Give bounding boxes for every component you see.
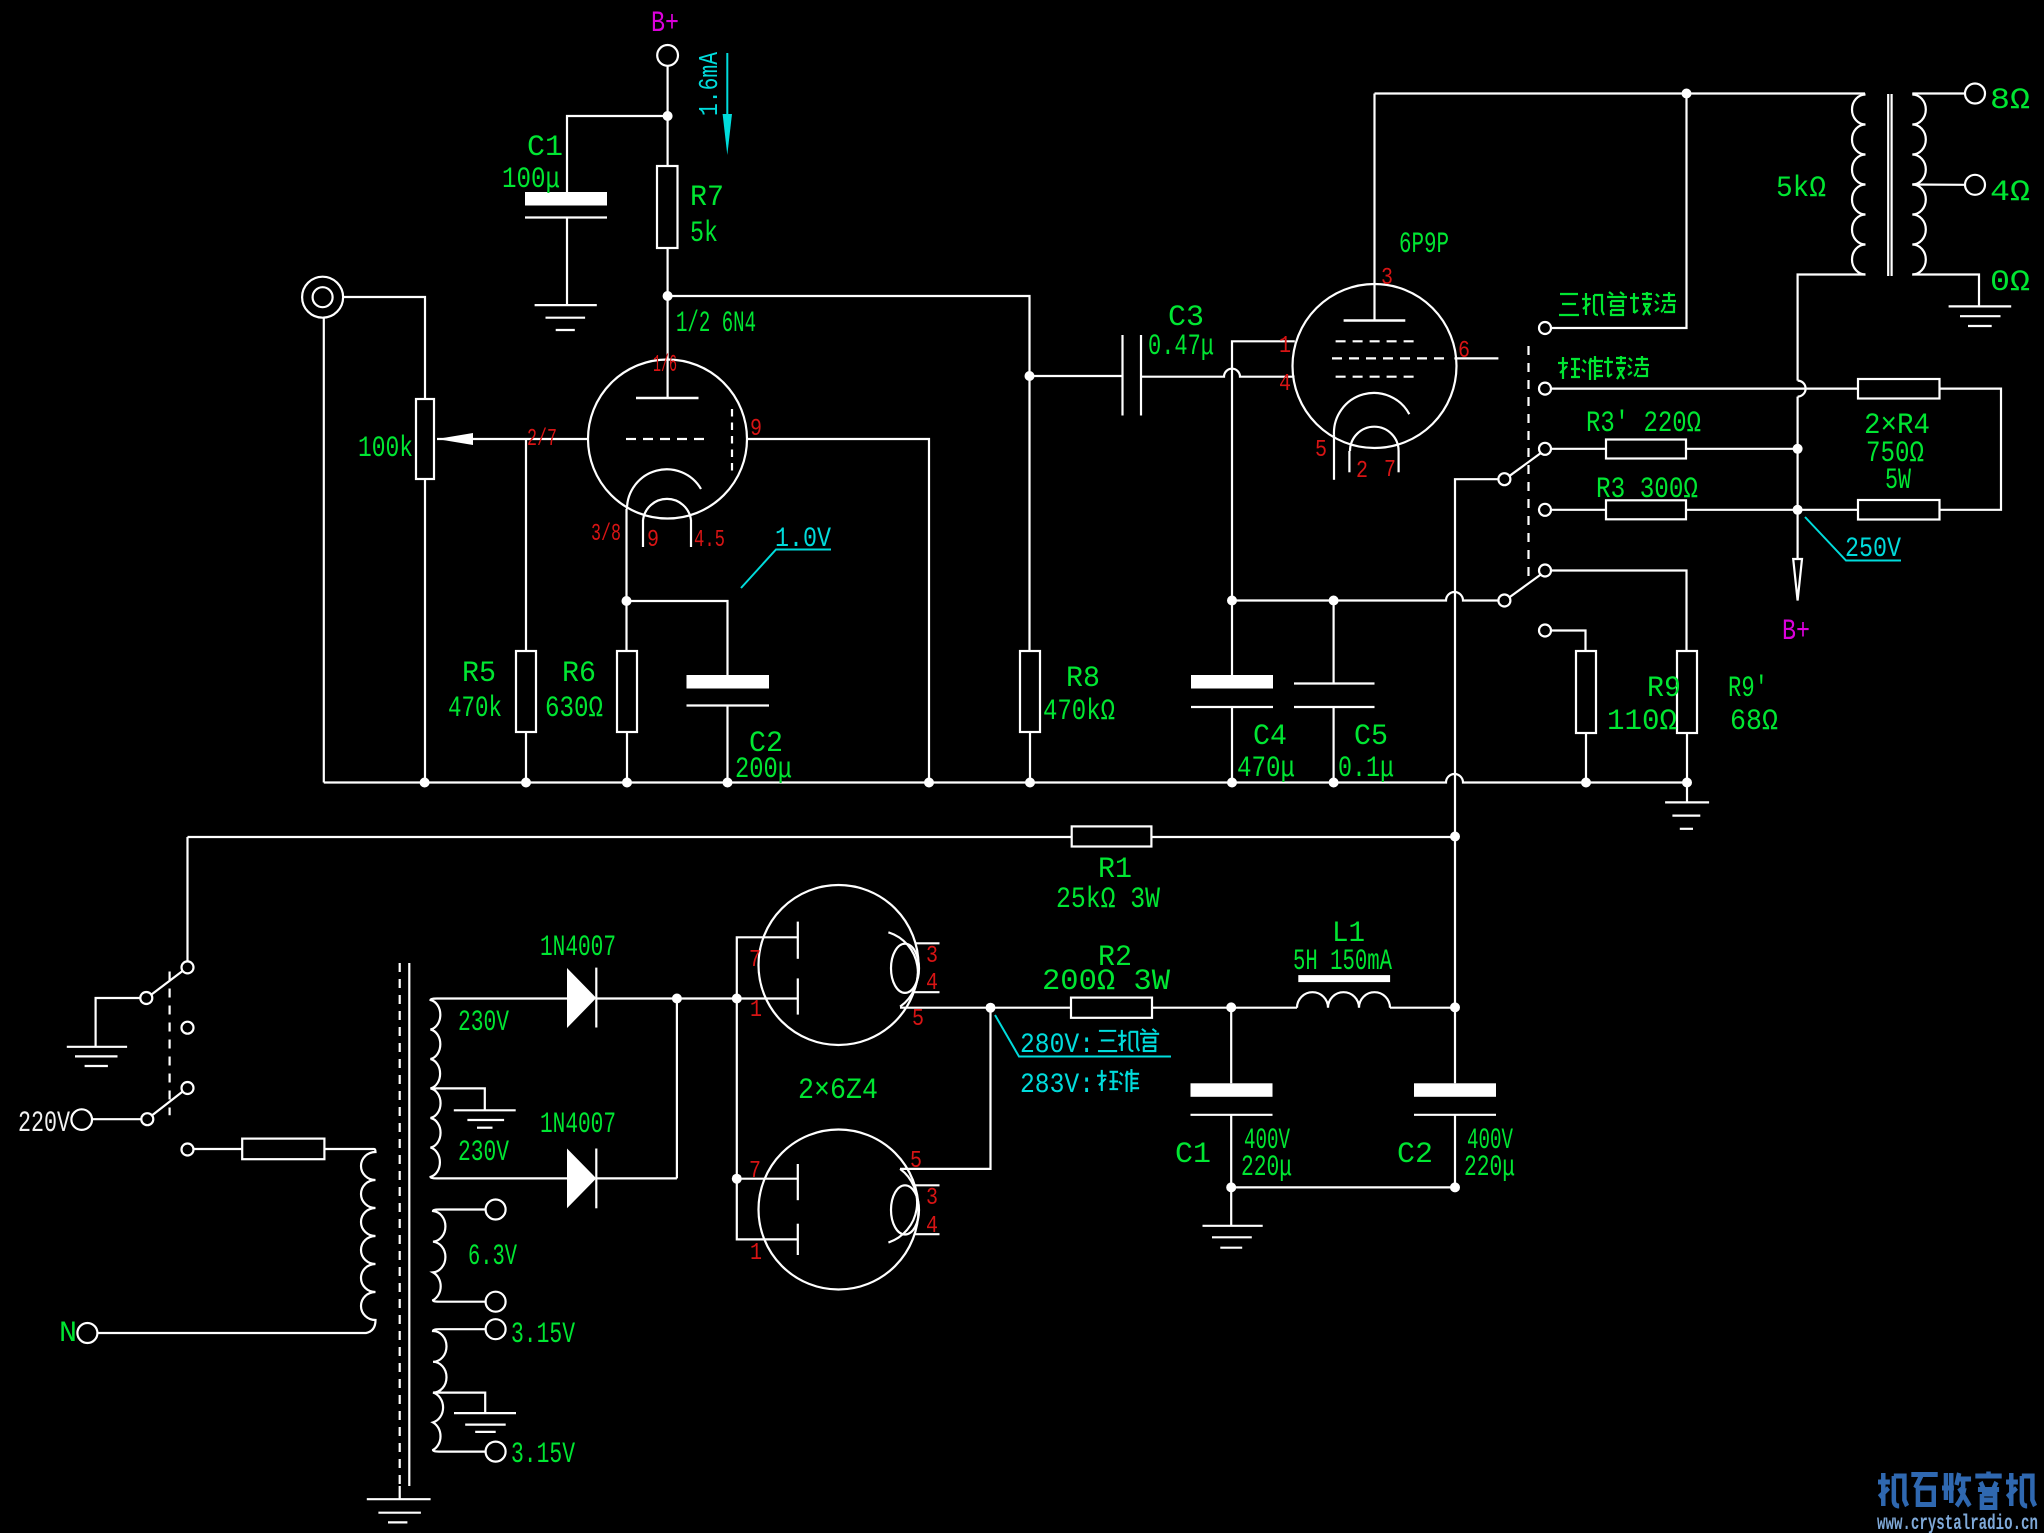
switch S1b lower contact to fuse — [182, 1144, 194, 1156]
node plate feed dot V2 — [732, 1174, 742, 1184]
wire cathode lead down — [625, 509, 627, 651]
switch S1b blade — [153, 1092, 183, 1115]
svg-text:B+: B+ — [651, 7, 679, 41]
svg-text:1N4007: 1N4007 — [540, 931, 616, 965]
resistor R9 110ohm — [1576, 651, 1596, 733]
terminal N — [77, 1323, 97, 1343]
svg-text:R1: R1 — [1098, 853, 1132, 887]
transformer PT primary winding — [97, 1149, 375, 1333]
resistor R3' 220ohm — [1551, 448, 1606, 450]
svg-text:R3′ 220Ω: R3′ 220Ω — [1586, 407, 1701, 441]
wire pole to earth — [96, 998, 141, 1047]
transformer OPT primary winding 5k — [1852, 95, 1866, 275]
node rectifier output dot — [672, 994, 682, 1004]
heater of 6Z4 #1 — [891, 944, 919, 993]
node PSU output dot — [986, 1003, 996, 1013]
cathode arc of 6Z4 #1 — [888, 932, 917, 1006]
wire junction to C1 — [567, 116, 668, 192]
svg-text:1: 1 — [1279, 333, 1291, 360]
switch S1a blade — [152, 971, 183, 995]
svg-text:200μ: 200μ — [735, 753, 792, 787]
capacitor C4 470u — [1231, 601, 1233, 676]
svg-text:C4: C4 — [1253, 720, 1287, 754]
wire down to R8 — [1028, 376, 1030, 651]
svg-text:0.1μ: 0.1μ — [1338, 752, 1394, 786]
svg-text:1/6: 1/6 — [653, 352, 677, 379]
wire grid pin1 riser — [1232, 341, 1295, 600]
switch pole A (screen selector) — [1498, 473, 1510, 485]
svg-text:R6: R6 — [562, 657, 596, 691]
wiper arrow of pot — [437, 433, 473, 445]
node R3' junction on B+ riser — [1793, 444, 1803, 454]
wire B+ down to junction — [666, 66, 668, 166]
grids of 6P9P (dashed rows) — [1336, 340, 1415, 342]
svg-text:1/2 6N4: 1/2 6N4 — [676, 307, 756, 341]
resistor R4 lower — [1858, 500, 1940, 520]
wire cathode node row with hop over B+ riser — [1232, 592, 1498, 601]
svg-text:1: 1 — [750, 997, 762, 1024]
node junction above R8 — [1025, 371, 1035, 381]
node plate junction of 6N4 — [663, 291, 673, 301]
label 283V standard hanzi — [1097, 1070, 1118, 1091]
wire plate node to C3 column — [668, 296, 1030, 376]
plate of 6P9P — [1373, 94, 1375, 321]
svg-text:R8: R8 — [1066, 662, 1100, 696]
input jack — [302, 277, 343, 318]
switch S1a pole — [140, 992, 152, 1004]
svg-text:3/8: 3/8 — [591, 521, 621, 548]
wire secondary tap to 4 ohm terminal — [1912, 183, 1965, 186]
switch S1 unused contact — [182, 1022, 194, 1034]
switch contact (R3 tap) — [1539, 504, 1551, 516]
svg-text:1.0V: 1.0V — [775, 524, 831, 555]
svg-text:4Ω: 4Ω — [1990, 176, 2030, 210]
switch pole B (cathode selector) — [1498, 595, 1510, 607]
svg-text:4: 4 — [926, 970, 938, 997]
resistor R1 25k 3W — [1072, 826, 1152, 846]
svg-text:5: 5 — [1315, 437, 1327, 464]
capacitor C2 200u — [687, 675, 770, 689]
node bus dots — [420, 778, 430, 788]
wire B+ rail from PSU to switches — [188, 836, 1072, 838]
wire HV center tap to ground — [431, 1088, 485, 1110]
annotation 280V/283V leader — [995, 1015, 1171, 1057]
resistor R5 470k — [525, 439, 527, 651]
node plate/OPT junction — [1682, 89, 1692, 99]
heater of 6Z4 #2 — [891, 1185, 919, 1234]
svg-text:470μ: 470μ — [1237, 752, 1295, 786]
divider dashed line inside 6N4 — [731, 409, 733, 471]
tube V2 6Z4 envelope — [759, 1130, 919, 1290]
wire pin6 to switch contact — [1454, 357, 1498, 359]
plate of 6N4 — [666, 296, 668, 398]
annotation 250V leader — [1805, 517, 1901, 561]
wire heater center tap to ground — [433, 1393, 485, 1414]
svg-text:8Ω: 8Ω — [1990, 84, 2030, 118]
svg-text:4: 4 — [926, 1213, 938, 1240]
switch contact (R9 110ohm) — [1539, 625, 1551, 637]
transformer OPT core — [1887, 94, 1889, 276]
ground of heater center tap — [454, 1412, 516, 1414]
svg-text:9: 9 — [750, 416, 762, 443]
ground below C1 — [535, 304, 597, 306]
heater legs pins 2,7 — [1348, 451, 1350, 472]
ground of filter caps — [1230, 1187, 1232, 1225]
ground of PT core — [399, 1486, 401, 1499]
resistor R7 5k — [657, 166, 678, 248]
svg-text:R7: R7 — [690, 181, 724, 215]
wire secondary bottom 0 ohm to ground — [1912, 275, 1979, 307]
wire pole A to B+ riser — [1455, 479, 1498, 836]
capacitor C1 100u — [525, 192, 607, 206]
svg-text:5: 5 — [910, 1148, 922, 1175]
node filter output dot — [1450, 1002, 1460, 1012]
fuse — [242, 1139, 324, 1160]
svg-text:5k: 5k — [690, 217, 718, 251]
switch contact (triode mode) — [1539, 322, 1551, 334]
svg-text:1.6mA: 1.6mA — [696, 51, 726, 116]
svg-text:6.3V: 6.3V — [468, 1240, 517, 1274]
svg-text:100μ: 100μ — [502, 163, 560, 197]
wire down to L1/C2 node — [1454, 837, 1456, 1083]
ground of OPT secondary — [1949, 305, 2012, 307]
svg-text:R3 300Ω: R3 300Ω — [1596, 473, 1698, 507]
svg-text:200Ω 3W: 200Ω 3W — [1042, 965, 1170, 999]
node C2 bottom dot — [1450, 1182, 1460, 1192]
label 280V triode hanzi — [1098, 1031, 1117, 1051]
svg-text:R9′: R9′ — [1728, 672, 1768, 706]
wire left rail down to mains switch — [186, 837, 188, 961]
transformer PT HV secondary 230V+230V — [431, 999, 568, 1179]
switch S1a contact — [182, 961, 194, 973]
svg-text:6P9P: 6P9P — [1399, 228, 1449, 262]
watermark crystalradio logo — [1878, 1472, 2035, 1508]
potentiometer 100k — [416, 399, 434, 479]
wire pole to 220V terminal — [92, 1118, 141, 1120]
cathode arc of 6Z4 #2 — [888, 1169, 917, 1243]
svg-text:100k: 100k — [358, 432, 413, 466]
switch S1b pole — [141, 1113, 153, 1125]
capacitor C5 0.1u — [1332, 601, 1334, 684]
label (standard connection) hanzi — [1558, 357, 1580, 379]
transformer PT core (dashed+solid) — [399, 963, 401, 1486]
wire C1 to C2 bottom — [1231, 1186, 1455, 1188]
resistor R4 upper — [1858, 379, 1940, 399]
wire standard contact through R4 pair loop — [1551, 389, 2001, 510]
ground at right end of bus — [1686, 783, 1688, 803]
svg-text:2/7: 2/7 — [527, 426, 557, 453]
heater of 6P9P (inner arc) — [1350, 427, 1399, 451]
svg-text:230V: 230V — [458, 1136, 509, 1170]
terminal 220V — [71, 1109, 92, 1130]
svg-text:N: N — [59, 1317, 77, 1351]
diode D2 1N4007 — [567, 1149, 596, 1209]
annotation 1.0V leader — [741, 550, 831, 589]
svg-text:5kΩ: 5kΩ — [1776, 172, 1826, 206]
transformer PT 6.3V winding — [433, 1210, 486, 1302]
svg-text:C1: C1 — [1175, 1138, 1211, 1172]
svg-text:1N4007: 1N4007 — [540, 1108, 616, 1142]
ground of HV center tap — [454, 1109, 516, 1111]
svg-text:R5: R5 — [462, 657, 496, 691]
node B+ terminal top — [657, 45, 678, 66]
capacitor C2 (PSU) 220u — [1414, 1083, 1496, 1097]
tube U2 6P9P envelope — [1293, 284, 1457, 448]
diode D1 1N4007 — [567, 968, 596, 1028]
svg-text:25kΩ 3W: 25kΩ 3W — [1056, 883, 1160, 917]
svg-text:9: 9 — [647, 527, 659, 554]
transformer PT 3.15V windings — [433, 1329, 486, 1451]
wire pin5 of 6Z4 #2 up to output node — [900, 1008, 991, 1169]
svg-text:3: 3 — [926, 1185, 938, 1212]
svg-text:B+: B+ — [1782, 615, 1810, 649]
svg-text:250V: 250V — [1845, 534, 1901, 565]
wire C3 to grid pin4 with hop over riser — [1141, 369, 1295, 377]
svg-text:5H 150mA: 5H 150mA — [1293, 945, 1392, 979]
cathode of 6N4 (outer arc) — [627, 469, 701, 509]
svg-text:4.5: 4.5 — [694, 527, 725, 554]
svg-text:7: 7 — [749, 1158, 761, 1185]
svg-text:630Ω: 630Ω — [545, 692, 603, 726]
node R3/R4/250V junction on B+ riser — [1793, 505, 1803, 515]
svg-text:470k: 470k — [448, 692, 502, 726]
label (triode connection) hanzi — [1559, 294, 1579, 315]
wire grid to pot wiper — [437, 438, 588, 440]
svg-text:220μ: 220μ — [1464, 1151, 1515, 1185]
wire plate top to OPT — [1375, 92, 1866, 94]
node cathode junction — [622, 596, 632, 606]
svg-text:220V: 220V — [18, 1107, 70, 1141]
wire hop of B+ riser over standard-contact wire — [1798, 381, 1806, 397]
transformer OPT secondary winding — [1912, 95, 1926, 275]
svg-text:3: 3 — [1381, 265, 1393, 292]
ground at mains earth — [67, 1046, 127, 1048]
heater of 6N4 (inner arc) — [643, 499, 691, 520]
svg-text:2: 2 — [1356, 458, 1368, 485]
svg-text:110Ω: 110Ω — [1607, 705, 1677, 739]
switch gang linkage (dashed) — [1527, 346, 1529, 580]
svg-text:C5: C5 — [1354, 720, 1388, 754]
wire pin9 to bus — [747, 439, 929, 783]
inductor L1 5H — [1297, 992, 1390, 1008]
wire jack to ground bus — [323, 318, 325, 783]
svg-text:R9: R9 — [1647, 672, 1681, 706]
switch contact (R3' tap) — [1539, 443, 1551, 455]
svg-text:3.15V: 3.15V — [511, 1438, 575, 1472]
svg-text:230V: 230V — [458, 1006, 509, 1040]
svg-text:5: 5 — [912, 1006, 924, 1033]
wire ground bus — [324, 774, 1687, 783]
svg-text:3: 3 — [926, 943, 938, 970]
node 6Z4 plate feed dot — [732, 994, 742, 1004]
switch contact (R9' 68ohm) — [1539, 565, 1551, 577]
svg-text:7: 7 — [749, 947, 761, 974]
svg-text:5W: 5W — [1885, 464, 1911, 498]
svg-text:C1: C1 — [527, 131, 563, 165]
svg-text:2×6Z4: 2×6Z4 — [798, 1074, 878, 1108]
node dot at B+ riser top — [1450, 832, 1460, 842]
switch contact (standard mode) — [1539, 383, 1551, 395]
svg-text:www.crystalradio.cn: www.crystalradio.cn — [1877, 1513, 2038, 1533]
svg-text:470kΩ: 470kΩ — [1043, 695, 1115, 729]
node dots on cathode row — [1227, 596, 1237, 606]
switch S1b contact — [182, 1082, 194, 1094]
svg-text:68Ω: 68Ω — [1730, 705, 1778, 739]
tube V1 6Z4 envelope — [759, 885, 919, 1045]
resistor R2 200ohm 3W — [1071, 998, 1152, 1018]
svg-text:0.47μ: 0.47μ — [1148, 330, 1214, 364]
svg-text:0Ω: 0Ω — [1990, 266, 2030, 300]
svg-text:283V:: 283V: — [1020, 1070, 1094, 1101]
heater legs pins 4,5 — [642, 520, 644, 547]
svg-text:1: 1 — [750, 1240, 762, 1267]
svg-text:3.15V: 3.15V — [511, 1318, 575, 1352]
switch S1 linkage dashed — [169, 972, 171, 1116]
tube U1 6N4 envelope — [588, 360, 747, 519]
wire secondary top to 8 ohm terminal — [1912, 92, 1964, 94]
arrow to B+ (hollow) — [1793, 559, 1802, 601]
cathode of 6P9P (outer arc) — [1334, 393, 1409, 435]
wire D2 up to rectifier node — [676, 999, 678, 1179]
node C1 bottom dot — [1226, 1182, 1236, 1192]
resistor R9' 68ohm — [1677, 651, 1697, 733]
svg-text:4: 4 — [1279, 371, 1291, 398]
resistor R6 630ohm — [617, 651, 637, 732]
grid of 6N4 (dashed) — [626, 438, 709, 440]
plates of 6Z4 #1 — [737, 937, 798, 998]
svg-text:6: 6 — [1458, 338, 1470, 365]
svg-text:7: 7 — [1384, 457, 1396, 484]
capacitor C3 0.47u — [1030, 375, 1123, 377]
resistor R3 300ohm — [1551, 509, 1606, 511]
wire triode-connection contact to plate node — [1551, 94, 1687, 329]
wire cathode node to C2 — [627, 601, 728, 675]
resistor R8 470k — [1020, 651, 1040, 732]
wire pin5 of 6Z4 #1 to output node — [900, 1007, 991, 1009]
svg-text:280V:: 280V: — [1020, 1030, 1094, 1061]
capacitor C1 (PSU) 220u — [1230, 1008, 1232, 1084]
cathode lead pin5 — [1333, 435, 1335, 480]
plates of 6Z4 #2 — [736, 999, 738, 1179]
wire output node to R2 — [991, 1007, 1072, 1009]
svg-text:220μ: 220μ — [1241, 1151, 1292, 1185]
node junction dot below B+ — [663, 111, 673, 121]
wire OPT primary bottom to B+ riser — [1798, 275, 1866, 381]
svg-text:C2: C2 — [1397, 1138, 1433, 1172]
annotation 1.6mA arrow — [726, 53, 728, 114]
node filter input dot — [1226, 1002, 1236, 1012]
